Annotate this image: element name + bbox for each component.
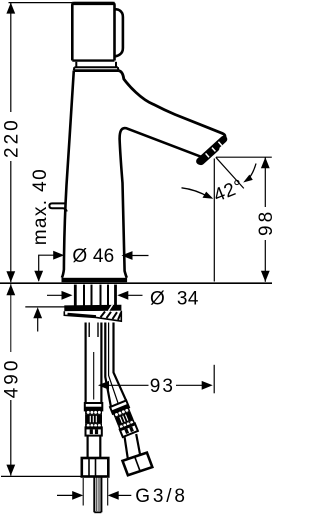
aerator step notches bbox=[206, 142, 222, 157]
mounting nut body bbox=[64, 311, 121, 322]
body left edge bbox=[62, 71, 74, 278]
threaded pipe end bbox=[93, 477, 95, 513]
spout tip vertical reference line bbox=[213, 159, 215, 282]
dimension max40 lower extension line bbox=[25, 306, 66, 308]
body top edge bbox=[74, 69, 119, 72]
handle grip lip bbox=[115, 9, 123, 56]
svg-text:98: 98 bbox=[256, 209, 277, 236]
dimension 220 top arrow bbox=[6, 3, 15, 14]
dimension 98 top extension line bbox=[216, 156, 272, 158]
angled hose ferrule and braid bbox=[110, 400, 138, 437]
handle bottom edge bbox=[72, 59, 114, 61]
42deg left curved leader arrow bbox=[182, 188, 210, 197]
vertical hose upper collar bbox=[85, 403, 103, 410]
dimension d34 left arrow bbox=[47, 294, 64, 296]
dimension 490 top arrow bbox=[6, 284, 15, 295]
spout upper edge bbox=[119, 71, 225, 142]
mounting shaft inner lines bbox=[84, 285, 108, 306]
dimension 93 extension line bbox=[213, 365, 215, 394]
faucet handle bbox=[72, 3, 114, 60]
G3/8 extension lines bbox=[82, 478, 84, 506]
svg-text:490: 490 bbox=[1, 358, 22, 399]
dimension max40 lower arrow bbox=[33, 307, 42, 318]
svg-text:Ø 34: Ø 34 bbox=[150, 289, 199, 310]
pull rod line bbox=[93, 352, 95, 400]
mounting nut underside edge bbox=[68, 314, 97, 316]
dimension max40 elbow leader bbox=[39, 255, 58, 281]
svg-text:93: 93 bbox=[150, 376, 175, 397]
42deg right curved leader arrow bbox=[248, 164, 256, 180]
dimension 220 top extension line bbox=[9, 2, 73, 4]
dimension 93 line bbox=[106, 384, 149, 386]
dimension 490 bottom arrow bbox=[6, 465, 15, 476]
dimension d46 right arrow bbox=[122, 251, 133, 260]
spout lower edge and body right edge bbox=[120, 128, 204, 278]
svg-text:max. 40: max. 40 bbox=[30, 168, 51, 245]
vertical hose braid striped block bbox=[85, 414, 102, 423]
mounting nut hatching bbox=[101, 312, 122, 320]
hex nut G3/8 bbox=[82, 458, 109, 477]
svg-text:G3/8: G3/8 bbox=[135, 486, 187, 507]
angled hose end nut bbox=[123, 453, 153, 476]
dimension 220 line bbox=[10, 3, 12, 112]
hose end reference line bbox=[1, 475, 81, 477]
mounting washer bar bbox=[64, 305, 121, 312]
spout 42deg reference line bbox=[216, 157, 244, 188]
angled hose lower neck bbox=[125, 437, 128, 460]
vertical hose lower tube bbox=[86, 436, 88, 459]
dimension 490 line bbox=[10, 284, 12, 352]
vertical hose braid bead row top bbox=[85, 410, 102, 414]
vertical hose lower collar bbox=[86, 427, 102, 435]
vertical hose braid bead row bottom bbox=[85, 424, 102, 428]
svg-text:Ø 46: Ø 46 bbox=[72, 246, 114, 267]
dimension 98 line bbox=[264, 157, 266, 207]
dimension d34 right arrow bbox=[117, 291, 128, 300]
angled hose upper tube bbox=[105, 323, 111, 407]
mounting shaft outer walls bbox=[74, 285, 77, 306]
dimension 220 bottom arrow bbox=[6, 271, 15, 282]
G3/8 dimension arrows bbox=[57, 494, 76, 496]
countertop line bbox=[0, 282, 272, 284]
pop-up rod lever bbox=[49, 203, 66, 211]
aerator stepped band bbox=[200, 139, 224, 161]
faucet base bar bbox=[62, 278, 128, 282]
vertical hose tube bbox=[84, 323, 86, 404]
svg-text:220: 220 bbox=[1, 117, 22, 158]
collar ring bbox=[74, 62, 119, 71]
